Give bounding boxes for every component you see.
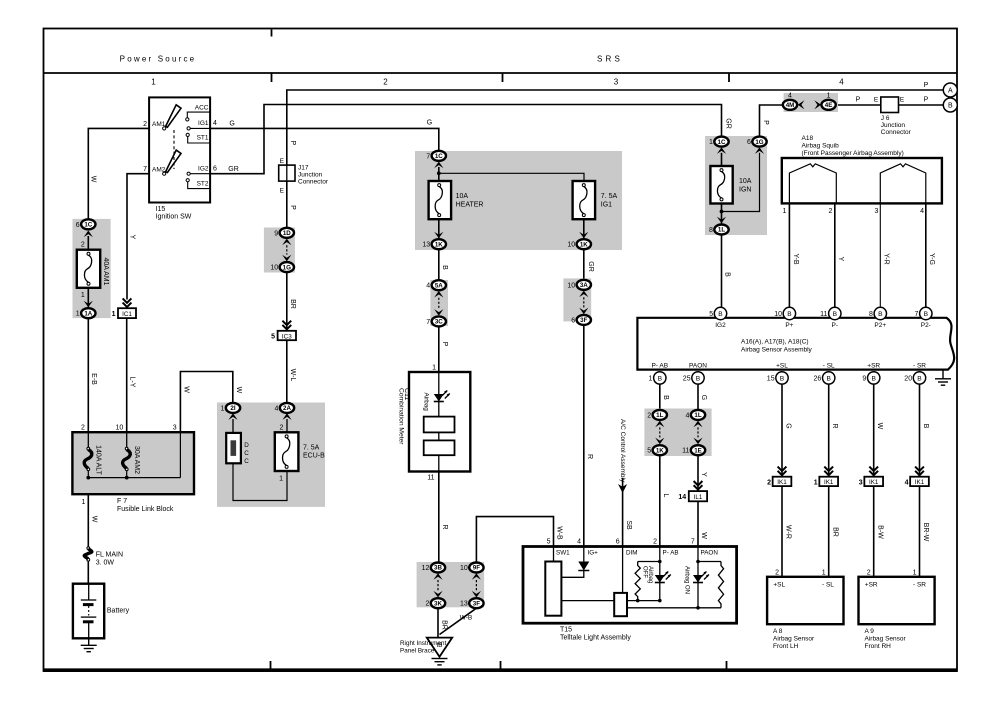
connector 3K [431, 598, 445, 608]
svg-text:B: B [718, 311, 723, 318]
svg-text:SW1: SW1 [556, 550, 570, 557]
fuse 10A HEATER box [429, 181, 452, 219]
squib A18 box [782, 158, 942, 203]
svg-text:1L: 1L [656, 412, 663, 419]
wire IC3 to 2A [286, 339, 288, 403]
svg-text:10A: 10A [456, 193, 469, 200]
svg-text:1C: 1C [718, 139, 726, 146]
svg-text:Telltale Light Assembly: Telltale Light Assembly [560, 635, 631, 642]
T15 SW1 block [545, 562, 561, 616]
ignition switch IG1 contact [187, 127, 190, 130]
wire 1A to fusible link [87, 318, 89, 432]
battery ground [88, 638, 90, 645]
svg-text:2: 2 [653, 539, 657, 546]
wire IC1 to fusible link pin 10 [126, 318, 128, 432]
svg-text:4: 4 [788, 92, 792, 99]
svg-text:1A: 1A [84, 310, 92, 317]
link to IG1 fuse [439, 173, 584, 181]
svg-text:+SL: +SL [776, 363, 788, 370]
connector 1G [280, 262, 294, 272]
svg-text:3: 3 [173, 425, 177, 432]
wire 1L to IG2 [721, 235, 723, 308]
arrow into 1L [717, 217, 726, 224]
fuse 10A IGN box [710, 166, 732, 204]
svg-text:7: 7 [426, 153, 430, 160]
svg-text:Front RH: Front RH [865, 643, 892, 650]
svg-text:1K: 1K [580, 241, 588, 248]
svg-text:P2-: P2- [921, 322, 931, 329]
svg-text:3. 0W: 3. 0W [96, 560, 115, 567]
svg-text:R: R [441, 524, 448, 529]
gray box 3B 9F 3K 3F [417, 562, 485, 607]
svg-text:Connector: Connector [298, 179, 329, 186]
svg-text:B: B [662, 395, 669, 400]
arrows 1L 1K [655, 421, 664, 428]
T15 IG+ diode [583, 547, 585, 562]
svg-text:11: 11 [427, 475, 434, 482]
T15 resistor airbag on [718, 562, 723, 608]
svg-text:8: 8 [709, 227, 713, 234]
svg-text:BR: BR [289, 299, 296, 309]
svg-text:B: B [696, 375, 701, 382]
svg-text:10: 10 [116, 425, 124, 432]
svg-text:IG+: IG+ [588, 550, 599, 557]
svg-text:Airbag Sensor Assembly: Airbag Sensor Assembly [741, 347, 813, 354]
svg-text:3A: 3A [580, 282, 588, 289]
meter window rects [424, 417, 455, 433]
arrows 4M 4E [798, 100, 805, 109]
wire meter to 3B [438, 472, 440, 563]
svg-text:W-B: W-B [556, 526, 563, 540]
svg-text:G: G [229, 120, 234, 127]
svg-text:A 9: A 9 [865, 628, 875, 635]
svg-text:P: P [289, 140, 296, 145]
wire pin3 W to 2I [180, 372, 232, 433]
svg-text:1L: 1L [694, 412, 701, 419]
arrow into 1C [434, 162, 443, 169]
svg-text:+SR: +SR [865, 582, 878, 589]
svg-text:1: 1 [814, 479, 818, 486]
connector 1E b [691, 445, 705, 455]
connector 3F [577, 315, 591, 325]
header section ticks [271, 73, 273, 82]
svg-text:1C: 1C [435, 153, 443, 160]
arrow into IK1 1 [778, 467, 787, 476]
meter internal wire [438, 372, 440, 472]
svg-text:IG1: IG1 [198, 120, 209, 127]
connector 2A [280, 403, 294, 413]
svg-text:1G: 1G [755, 139, 763, 146]
connector 1G IGN [752, 137, 766, 147]
telltale T15 box [523, 547, 737, 624]
ignition switch IG2 contact [187, 172, 190, 175]
svg-text:J17: J17 [298, 165, 309, 172]
svg-text:B: B [917, 375, 922, 382]
svg-text:E-B: E-B [90, 373, 97, 385]
svg-text:40A AM1: 40A AM1 [102, 257, 109, 285]
svg-text:1: 1 [827, 92, 831, 99]
svg-text:3: 3 [859, 479, 863, 486]
svg-text:W: W [876, 423, 883, 430]
svg-text:Airbag Squib: Airbag Squib [802, 143, 840, 150]
connector 1L a [653, 410, 667, 420]
junction connector IC3 [278, 331, 296, 340]
wire to page connector A [287, 90, 943, 165]
gray box 3A 3F [563, 278, 591, 321]
junction connector IK1 1 [773, 477, 792, 486]
arrow into IK1 2 [824, 467, 833, 476]
svg-text:A/C Control Assembly: A/C Control Assembly [619, 419, 626, 483]
svg-text:F 7: F 7 [117, 498, 127, 505]
ignition switch link dashed [173, 130, 175, 169]
fusible link 140A ALT [87, 432, 89, 447]
wire 3F to T15 IG+ [583, 325, 585, 547]
connector 1A [81, 308, 95, 318]
svg-text:B: B [826, 375, 831, 382]
svg-text:1: 1 [76, 311, 80, 318]
connector 3F lower [469, 598, 483, 608]
arrow into 2I [228, 413, 237, 420]
svg-text:1: 1 [220, 405, 224, 412]
svg-text:9F: 9F [473, 565, 480, 572]
header separator line [44, 72, 958, 74]
svg-text:P-: P- [832, 322, 839, 329]
wire 3C to meter [438, 326, 440, 372]
T15 SW1 to block wire [561, 600, 614, 602]
svg-text:ST2: ST2 [197, 181, 209, 188]
svg-text:6: 6 [747, 139, 751, 146]
svg-text:B: B [922, 424, 929, 429]
svg-text:Y: Y [837, 257, 844, 262]
svg-text:- SR: - SR [913, 582, 926, 589]
junction connector J17 [279, 165, 295, 181]
arrows 5A 3C [434, 291, 443, 298]
svg-text:4: 4 [274, 405, 278, 412]
wire 1K to T15 [659, 455, 661, 546]
svg-text:10: 10 [774, 311, 782, 318]
arrow into IC1 [123, 298, 132, 307]
svg-text:B: B [441, 265, 448, 270]
wire IK1 3 lower [873, 486, 875, 577]
connector 4E [821, 100, 835, 110]
wire IK1 1 lower [781, 486, 783, 577]
svg-text:4E: 4E [825, 102, 833, 109]
battery symbol [88, 584, 90, 600]
ignition switch ST2 contact [186, 179, 189, 182]
svg-text:A: A [948, 88, 953, 95]
svg-text:4: 4 [426, 283, 430, 290]
svg-text:P: P [924, 82, 929, 89]
svg-text:1C: 1C [84, 222, 92, 229]
fuse ECU-B box [275, 432, 299, 471]
svg-text:1: 1 [822, 569, 826, 576]
ignition switch ACC contact [187, 112, 210, 118]
ground symbol IB [432, 658, 448, 660]
svg-text:W: W [700, 532, 707, 539]
svg-text:4M: 4M [786, 102, 795, 109]
arrow into IL1 [694, 481, 703, 490]
svg-text:Airbag Sensor: Airbag Sensor [773, 636, 815, 643]
svg-text:B: B [878, 311, 883, 318]
svg-text:1: 1 [151, 78, 156, 87]
wire GR from IG2 [211, 105, 722, 174]
svg-text:11: 11 [682, 448, 689, 455]
fusible link 30A AM2 [126, 432, 128, 447]
wire 9F to T15 SW1 [476, 517, 553, 563]
T15 center block [614, 593, 627, 616]
svg-text:3F: 3F [580, 317, 587, 324]
svg-text:B: B [871, 375, 876, 382]
arrow into IK1 3 [869, 467, 878, 476]
svg-text:W-L: W-L [289, 369, 296, 382]
svg-text:P: P [762, 120, 769, 125]
svg-text:2: 2 [775, 569, 779, 576]
junction connector IL1 [689, 491, 707, 501]
svg-text:7: 7 [914, 311, 918, 318]
connector 3C [432, 316, 446, 326]
svg-text:PAON: PAON [701, 550, 719, 557]
svg-text:A 8: A 8 [773, 628, 783, 635]
ignition switch ST1 contact [186, 133, 189, 136]
gray fuse block 40A AM1 [73, 219, 111, 318]
T15 LED airbag off [655, 575, 665, 583]
gray box 4M 4E [784, 93, 838, 112]
svg-text:2: 2 [767, 479, 771, 486]
wire 1G to IC3 [286, 272, 288, 331]
svg-text:5: 5 [647, 448, 651, 455]
header tick top [271, 30, 273, 37]
connector 9F [469, 563, 483, 573]
svg-text:2A: 2A [283, 405, 291, 412]
airbag sensor assembly box [637, 318, 954, 370]
svg-text:3K: 3K [434, 600, 442, 607]
svg-text:Airbag: Airbag [423, 393, 430, 412]
svg-text:25: 25 [683, 375, 691, 382]
svg-text:2: 2 [425, 601, 429, 608]
svg-text:20: 20 [904, 375, 912, 382]
svg-text:G: G [427, 120, 432, 127]
svg-text:ST1: ST1 [197, 135, 209, 142]
svg-text:9: 9 [274, 230, 278, 237]
sensor assembly ground [942, 370, 944, 379]
svg-text:7: 7 [691, 539, 695, 546]
arrows 1D 1G [282, 239, 291, 246]
svg-text:E: E [280, 188, 285, 195]
fusible link block F7 [72, 432, 194, 494]
page connector A [943, 83, 957, 97]
svg-text:HEATER: HEATER [456, 202, 484, 209]
svg-text:3: 3 [874, 208, 878, 215]
svg-text:IK1: IK1 [915, 479, 925, 486]
svg-text:13: 13 [422, 242, 430, 249]
connector 5A [432, 280, 446, 290]
wire G from IG1 [211, 128, 439, 150]
junction connector IK1 3 [864, 477, 883, 486]
svg-text:Airbag ON: Airbag ON [683, 566, 689, 594]
svg-text:Battery: Battery [107, 607, 130, 614]
gray panel IGN fuse [705, 136, 767, 235]
svg-text:FL MAIN: FL MAIN [96, 552, 123, 559]
svg-text:6: 6 [213, 165, 217, 172]
svg-text:4: 4 [213, 120, 217, 127]
connector 1L b [691, 410, 705, 420]
svg-text:A18: A18 [802, 135, 814, 142]
svg-text:IK1: IK1 [869, 479, 879, 486]
svg-text:1: 1 [81, 499, 85, 506]
squib wire 4 [925, 203, 927, 307]
wire IK1 4 lower [919, 486, 921, 577]
svg-text:D: D [244, 442, 249, 449]
wire P-AB down [659, 384, 661, 410]
arrow into 1K right [579, 232, 588, 239]
svg-text:1D: 1D [283, 230, 291, 237]
svg-text:1: 1 [432, 365, 436, 372]
svg-text:W: W [91, 516, 98, 523]
svg-text:1E: 1E [694, 447, 702, 454]
page connector B [943, 98, 957, 112]
svg-text:1L: 1L [718, 227, 725, 234]
connector 1K right [577, 239, 591, 249]
arrows 9F 3F [472, 573, 481, 580]
fuse FL MAIN [87, 547, 90, 550]
arrow into IK1 4 [915, 467, 924, 476]
svg-text:4: 4 [577, 539, 581, 546]
junction connector IK1 4 [910, 477, 929, 486]
svg-text:- SL: - SL [823, 363, 835, 370]
arrow into 1C IGN [717, 147, 726, 154]
svg-text:B-W: B-W [876, 525, 883, 539]
svg-text:A16(A), A17(B), A18(C): A16(A), A17(B), A18(C) [741, 339, 809, 346]
sensor assembly bottom pins [654, 372, 666, 384]
battery box [73, 584, 104, 639]
svg-text:Fusible Link Block: Fusible Link Block [117, 506, 174, 513]
airbag sensor front RH box [859, 577, 935, 624]
svg-text:1: 1 [81, 292, 85, 299]
svg-text:W: W [89, 176, 96, 183]
connector 3B [431, 563, 445, 573]
T15 block right wires [627, 600, 660, 602]
connector 1D [280, 228, 294, 238]
svg-text:IGN: IGN [739, 187, 751, 194]
svg-text:IL1: IL1 [694, 494, 703, 501]
svg-text:P: P [924, 97, 929, 104]
svg-text:4: 4 [685, 412, 689, 419]
svg-text:8: 8 [869, 311, 873, 318]
svg-text:ECU-B: ECU-B [303, 453, 325, 460]
AC control wire arrow [622, 478, 624, 547]
svg-text:B: B [924, 311, 929, 318]
svg-text:2I: 2I [230, 405, 235, 412]
squib connector shape 2 [880, 164, 926, 203]
connector 1C [81, 219, 95, 229]
svg-text:C: C [244, 458, 249, 465]
svg-text:Y-R: Y-R [883, 253, 890, 264]
arrow into 1K [434, 232, 443, 239]
svg-text:BR: BR [441, 620, 448, 630]
svg-text:Junction: Junction [298, 172, 323, 179]
svg-text:Junction: Junction [881, 122, 906, 129]
svg-text:R: R [831, 423, 838, 428]
svg-text:P+: P+ [785, 322, 793, 329]
junction connector IK1 2 [819, 477, 838, 486]
svg-text:(Front Passenger Airbag Assemb: (Front Passenger Airbag Assembly) [802, 150, 904, 157]
svg-text:GR: GR [228, 166, 239, 173]
svg-text:W-B: W-B [460, 615, 473, 622]
svg-text:W: W [183, 386, 190, 393]
svg-text:Ignition SW: Ignition SW [156, 214, 192, 221]
svg-text:SRS: SRS [597, 55, 623, 64]
svg-text:- SR: - SR [913, 363, 926, 370]
svg-text:2: 2 [828, 208, 832, 215]
wire sensor column 2 upper [828, 384, 830, 477]
svg-text:+SR: +SR [867, 363, 880, 370]
svg-text:BR: BR [831, 527, 838, 537]
svg-text:B: B [780, 375, 785, 382]
svg-text:L-Y: L-Y [129, 377, 136, 388]
svg-text:1: 1 [782, 208, 786, 215]
svg-text:4: 4 [920, 208, 924, 215]
wire IK1 2 lower [828, 486, 830, 577]
svg-text:J 6: J 6 [881, 115, 890, 122]
ignition switch AM1 contact [163, 127, 166, 130]
svg-text:E: E [874, 97, 879, 104]
svg-text:10A: 10A [739, 178, 752, 185]
svg-text:G: G [700, 395, 707, 400]
svg-text:7. 5A: 7. 5A [303, 445, 320, 452]
IGN fuse bottom link [721, 204, 723, 225]
svg-text:P2+: P2+ [874, 322, 886, 329]
bottom border ticks [270, 661, 272, 670]
svg-text:IK1: IK1 [824, 479, 834, 486]
svg-text:3B: 3B [434, 565, 442, 572]
wire AM2 to IC1 [127, 174, 149, 300]
svg-text:IK1: IK1 [777, 479, 787, 486]
T15 LED airbag on [693, 575, 703, 583]
fuse 7.5A IG1 box [573, 181, 596, 219]
svg-text:10: 10 [270, 265, 278, 272]
svg-text:IC3: IC3 [282, 333, 292, 340]
gray box 1D 1G [264, 228, 295, 273]
svg-text:R: R [586, 454, 593, 459]
arrow into 1C [84, 231, 93, 238]
svg-text:E: E [280, 158, 285, 165]
wire 3F diagonal [440, 608, 477, 634]
svg-text:5: 5 [709, 311, 713, 318]
svg-text:3C: 3C [435, 319, 443, 326]
svg-text:IG1: IG1 [601, 202, 612, 209]
svg-text:1K: 1K [656, 447, 664, 454]
svg-text:- SL: - SL [822, 582, 834, 589]
svg-text:+SL: +SL [773, 582, 785, 589]
svg-text:5: 5 [547, 539, 551, 546]
svg-text:G: G [784, 423, 791, 428]
svg-text:7: 7 [143, 166, 147, 173]
T15 PAON branch [697, 547, 699, 608]
svg-text:6: 6 [76, 222, 80, 229]
wire fusible link to FL MAIN [87, 494, 89, 547]
svg-text:14: 14 [678, 494, 686, 501]
gray panel heater fuses [415, 151, 622, 250]
squib connector shape 1 [789, 164, 836, 203]
svg-text:Y: Y [128, 235, 135, 240]
svg-text:P: P [856, 97, 861, 104]
svg-text:4: 4 [905, 479, 909, 486]
svg-text:P: P [289, 205, 296, 210]
squib wire 2 [834, 203, 836, 307]
svg-text:10: 10 [567, 242, 575, 249]
wire 1K to 3A [583, 249, 585, 280]
svg-text:GR: GR [587, 261, 594, 272]
